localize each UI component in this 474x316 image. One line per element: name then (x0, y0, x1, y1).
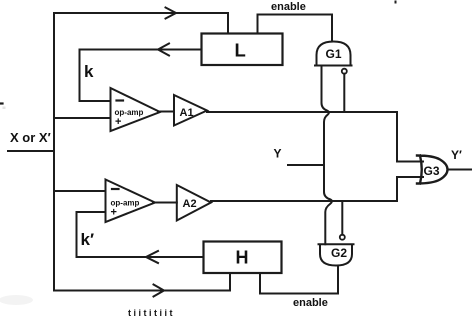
wire bottom feedback line from bus to H (54, 273, 230, 291)
wire left edge dash (0, 102, 3, 104)
svg-text:k′: k′ (81, 230, 95, 249)
svg-text:G2: G2 (331, 246, 347, 260)
wire L output feedback to op-amp U1 minus input (k) (80, 50, 202, 102)
wire arrowhead right on bottom line (154, 285, 165, 297)
amplifier A2 (177, 185, 211, 221)
wire left vertical bus (53, 13, 55, 290)
faint smudge bottom left (0, 295, 33, 305)
wire G3 output (448, 169, 472, 171)
bubble on G1 output (342, 69, 347, 74)
wire arrowhead left on k' line (146, 251, 158, 263)
wire G1 left leg with hops over datapaths down to G2 (322, 66, 332, 245)
bubble on G2 output (340, 235, 345, 240)
svg-text:t i i t i t i i t: t i i t i t i i t (128, 308, 173, 316)
wire arrowhead left on k line (158, 44, 169, 56)
svg-text:G1: G1 (326, 47, 342, 61)
wire arrowhead right on top line (166, 8, 177, 19)
wire Y input line (288, 164, 324, 166)
wire X input stub (8, 150, 54, 152)
wire G1 output to top datapath (343, 74, 345, 112)
svg-text:k: k (84, 62, 94, 81)
wire A1 output to right corner (top datapath) (207, 112, 423, 162)
wire H feedback to op-amp U2 plus input (k') (77, 212, 204, 257)
svg-text:X or X′: X or X′ (10, 130, 51, 145)
svg-text:Y: Y (274, 147, 282, 161)
speck top right (395, 1, 397, 4)
svg-text:enable: enable (293, 297, 328, 309)
gate G1 (315, 42, 352, 66)
svg-text:A2: A2 (183, 198, 197, 210)
wire U2 output to A2 (153, 202, 177, 204)
svg-text:+: + (115, 116, 121, 128)
gate G3 (417, 156, 448, 184)
svg-text:Y′: Y′ (451, 148, 462, 162)
op-amp U2 (106, 180, 156, 223)
svg-text:+: + (111, 207, 117, 219)
wire enable top line from L to G1 (258, 15, 333, 42)
wire A2 output to right corner (bottom datapath) (211, 177, 423, 201)
wire bus to U2 minus input (54, 190, 106, 192)
svg-text:enable: enable (271, 1, 306, 13)
wire G2 output bubble to bottom datapath (341, 201, 343, 235)
svg-text:H: H (236, 248, 249, 268)
amplifier A1 (174, 95, 207, 126)
wire top feedback line to L (54, 13, 228, 34)
wire enable bottom line from H to G2 (260, 266, 338, 294)
box H (204, 242, 282, 274)
wire bus to U1 plus input (54, 117, 111, 119)
svg-text:L: L (235, 40, 246, 61)
box L (202, 34, 283, 66)
svg-text:A1: A1 (180, 107, 194, 119)
gate G2 (319, 244, 354, 265)
wire U1 output to A1 (158, 111, 174, 113)
svg-text:G3: G3 (424, 164, 440, 178)
op-amp U1 (111, 88, 161, 131)
